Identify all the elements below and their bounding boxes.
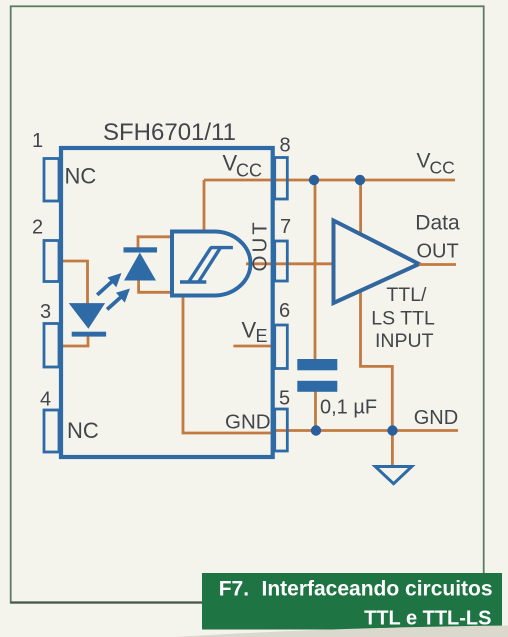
svg-text:NC: NC [67,418,99,443]
svg-text:3: 3 [40,301,51,323]
svg-text:INPUT: INPUT [375,330,434,352]
svg-text:5: 5 [279,388,290,410]
pin 1 [44,159,59,202]
svg-text:1: 1 [32,130,43,152]
svg-text:V: V [242,318,257,343]
svg-text:LS TTL: LS TTL [371,308,435,330]
svg-text:OUT: OUT [417,241,459,263]
svg-text:E: E [256,326,268,346]
wire VE underline to pin6 [233,345,274,348]
wire capacitor branch upper [314,180,317,360]
wire photodiode cathode to gate input top [138,237,172,250]
svg-text:8: 8 [280,135,291,157]
junction dot GND/capacitor [311,425,321,435]
page shadow [175,626,508,637]
photodiode D2 [124,247,158,280]
label VCC rail [417,150,455,178]
junction dot VCC/capacitor [309,175,319,185]
svg-text:NC: NC [65,164,97,189]
light arrow 1 [97,273,121,295]
pin 5 [275,409,288,451]
buffer U2 TTL driver [334,221,420,304]
wire buffer ground drop [361,291,393,431]
pin 2 [44,241,59,282]
wire GND rail external [274,429,458,432]
LED D1 emitter [69,303,106,337]
pin 4 [44,410,59,452]
caption box F7 [202,573,502,630]
junction dot GND/ground [387,425,397,435]
wire VCC drop to schmitt gate [203,180,206,232]
label VE internal [242,318,268,347]
wire gate output through pin7 to buffer input [246,262,334,265]
pin 3 [44,324,59,368]
wire to ground symbol [391,431,394,467]
wire VCC to buffer top [359,180,362,234]
capacitor C1 [297,359,337,392]
light arrow 2 [107,289,130,310]
schmitt trigger gate [172,232,251,296]
svg-text:0,1 µF: 0,1 µF [320,397,377,419]
label VCC internal [223,150,263,180]
svg-text:6: 6 [279,300,290,322]
IC U1 SFH6701/11 package body [61,148,273,457]
wire capacitor branch lower [314,391,317,431]
wire buffer output [419,263,456,266]
svg-text:GND: GND [225,411,271,434]
wire VCC internal + rail (pin8 net) [204,179,455,182]
pin 7 [275,241,288,281]
wire photodiode anode to gate input bottom [139,279,172,292]
svg-text:TTL/: TTL/ [386,284,427,306]
svg-text:Data: Data [415,212,460,235]
ground symbol [375,467,412,484]
wire pin2 to LED anode [62,261,88,304]
wire gate ground to pin5 [183,296,273,433]
svg-text:CC: CC [430,158,455,178]
pin 6 [275,325,288,369]
wire LED cathode to pin3 [62,335,88,346]
svg-text:V: V [417,150,431,173]
svg-text:SFH6701/11: SFH6701/11 [103,119,236,146]
svg-text:2: 2 [32,217,43,239]
pin 8 [275,158,288,200]
junction dot VCC/buffer [355,175,365,185]
svg-text:7: 7 [280,216,291,238]
frame bottom segment (darker) [11,601,202,603]
svg-text:GND: GND [414,407,458,429]
svg-text:4: 4 [40,389,51,411]
svg-text:CC: CC [236,160,262,180]
